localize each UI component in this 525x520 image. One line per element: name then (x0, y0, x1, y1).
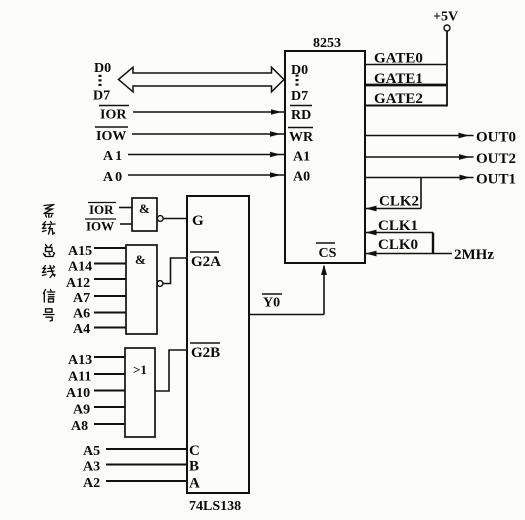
svg-text:OUT0: OUT0 (476, 130, 516, 146)
decoder U2 74LS138 body (187, 196, 249, 493)
char 系 (44, 205, 54, 218)
svg-text:IOR: IOR (100, 108, 127, 123)
wire U3 output to G (163, 218, 187, 220)
svg-text:A4: A4 (73, 322, 90, 337)
wire CLK0 from 2MHz (366, 251, 453, 257)
svg-text:D0: D0 (94, 61, 111, 76)
svg-text:2MHz: 2MHz (454, 247, 494, 263)
wire A15 (94, 247, 126, 249)
gate U5 OR (address mid) body (125, 348, 155, 437)
node IOW (overline) (95, 127, 128, 144)
gate U4 AND (address high) body (126, 245, 157, 334)
svg-text:A: A (189, 476, 200, 492)
svg-text:D7: D7 (291, 89, 308, 104)
data bus double arrow (119, 67, 285, 92)
wire A0 to chip (128, 172, 284, 178)
svg-text:+5V: +5V (433, 10, 458, 25)
wire +5V vertical (446, 31, 448, 107)
wire GATE2 to +5V (365, 105, 447, 107)
svg-text:D0: D0 (291, 63, 308, 78)
wire IOR to RD (133, 109, 284, 115)
wire A8 (94, 423, 125, 425)
wire A14 (94, 263, 126, 265)
wire IOW to U3 (120, 223, 132, 225)
svg-text:G2A: G2A (191, 254, 221, 270)
pin label WR (chip, overline) (288, 128, 314, 146)
svg-text:WR: WR (289, 130, 314, 145)
svg-text:A7: A7 (73, 291, 90, 306)
svg-text:B: B (189, 459, 199, 475)
wire A10 (94, 390, 125, 392)
svg-text:A12: A12 (66, 276, 90, 291)
svg-text:A14: A14 (68, 260, 92, 275)
svg-text:A8: A8 (71, 419, 88, 434)
svg-text:OUT1: OUT1 (476, 172, 516, 188)
wire A7 (94, 295, 126, 297)
svg-text:Y0: Y0 (263, 296, 280, 311)
gate U4 output bubble (157, 281, 163, 287)
svg-text:A1: A1 (293, 150, 310, 165)
wire CLK2 from OUT1 (366, 178, 422, 212)
wire OUT2 (365, 154, 474, 160)
svg-text:A15: A15 (68, 244, 92, 259)
wire IOW to WR (132, 131, 284, 137)
wire A6 (94, 312, 126, 314)
node IOR (gate, overline) (88, 202, 116, 217)
node Y0 (overline) (262, 294, 282, 311)
node IOW (gate, overline) (85, 219, 116, 234)
wire A4 (94, 327, 126, 329)
svg-text:A2: A2 (83, 476, 100, 491)
svg-text:&: & (135, 252, 146, 267)
power +5V terminal circle (444, 25, 450, 31)
svg-text:D7: D7 (93, 89, 110, 104)
svg-text:G2B: G2B (191, 345, 220, 361)
node IOR (overline) (99, 106, 129, 123)
side note: Chinese caption 系统总线信号 (43, 205, 56, 322)
svg-text:A0: A0 (103, 170, 124, 185)
svg-text:&: & (139, 201, 150, 216)
wire A12 (94, 278, 126, 280)
wire A9 (94, 406, 125, 408)
svg-text:G: G (192, 213, 204, 229)
svg-text:C: C (189, 443, 200, 459)
char 号 (44, 309, 55, 321)
wire OUT0 (365, 133, 474, 139)
svg-text:IOR: IOR (89, 202, 114, 217)
gate U3 output bubble (157, 216, 163, 222)
wire IOR to U3 (119, 207, 132, 209)
svg-text:74LS138: 74LS138 (189, 499, 241, 514)
wire OUT1 (365, 175, 474, 181)
wire Y0 to CS with up arrow (249, 265, 327, 315)
pin label RD (chip, overline) (290, 106, 312, 124)
wire A1 to chip (128, 152, 284, 158)
wire A3 to B (106, 464, 187, 466)
svg-text:8253: 8253 (313, 36, 341, 51)
svg-text:A3: A3 (83, 460, 100, 475)
pin ellipsis dots (chip) (296, 75, 299, 86)
svg-text:IOW: IOW (96, 129, 126, 144)
wire CLK1-CLK0 link (432, 233, 434, 254)
wire GATE1 to +5V (365, 84, 447, 87)
wire GATE0 to +5V (365, 64, 447, 66)
svg-text:RD: RD (291, 108, 311, 123)
char 总 (44, 245, 55, 257)
wire A2 to A (106, 480, 187, 482)
wire A13 (94, 356, 125, 358)
svg-text:IOW: IOW (86, 219, 114, 234)
gate U3 AND (IOR/IOW) body (132, 198, 157, 231)
pin label G2A (overline) (190, 252, 221, 270)
svg-text:CLK0: CLK0 (378, 237, 418, 253)
svg-text:A6: A6 (73, 307, 90, 322)
svg-text:A10: A10 (66, 386, 90, 401)
wire A5 to C (106, 448, 187, 450)
char 信 (44, 290, 55, 303)
svg-text:A0: A0 (293, 170, 310, 185)
bus ellipsis dots (left) (99, 75, 102, 86)
svg-text:A11: A11 (68, 370, 91, 385)
wire U5 output to G2B (155, 350, 187, 391)
svg-text:>1: >1 (133, 362, 147, 377)
svg-text:A13: A13 (68, 353, 92, 368)
svg-text:CLK1: CLK1 (378, 218, 418, 234)
svg-text:A9: A9 (73, 403, 90, 418)
svg-text:A1: A1 (103, 149, 124, 164)
pin label CS (chip, overline) (316, 243, 337, 261)
wire CLK1 (366, 230, 434, 236)
svg-text:OUT2: OUT2 (476, 151, 516, 167)
svg-text:CLK2: CLK2 (379, 194, 419, 210)
char 线 (43, 266, 56, 278)
wire U4 output to G2A (163, 258, 187, 284)
chip U1 8253 body (285, 51, 365, 263)
svg-text:CS: CS (319, 246, 337, 261)
wire A11 (94, 373, 125, 375)
svg-text:A5: A5 (83, 444, 100, 459)
char 统 (43, 222, 56, 235)
pin label G2B (overline) (190, 343, 220, 361)
